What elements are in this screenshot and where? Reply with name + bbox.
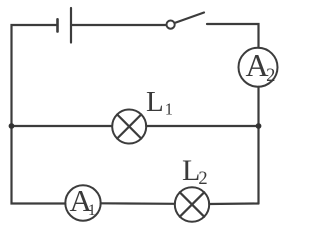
wire right vertical lower <box>257 126 259 204</box>
ammeter A2 <box>239 48 278 87</box>
wire top-left horizontal <box>12 25 57 126</box>
wire L2 to A1 <box>101 202 175 205</box>
node right junction <box>256 123 262 129</box>
switch S1 <box>167 13 205 29</box>
svg-text:L1: L1 <box>146 86 173 119</box>
battery B1 <box>58 8 72 43</box>
wire bottom right segment <box>209 202 258 205</box>
wire switch to top-right corner <box>207 24 259 48</box>
ammeter A1 <box>65 185 100 220</box>
node left junction <box>9 123 15 129</box>
wire middle branch right <box>146 125 258 127</box>
svg-text:L2: L2 <box>182 154 208 189</box>
wire A1 to bottom-left corner <box>12 126 66 204</box>
wire A2 down to right junction <box>257 87 259 126</box>
wire battery to switch <box>71 24 167 26</box>
lamp L1 <box>112 110 146 144</box>
wire middle branch left <box>12 125 113 127</box>
lamp L2 <box>175 187 209 221</box>
